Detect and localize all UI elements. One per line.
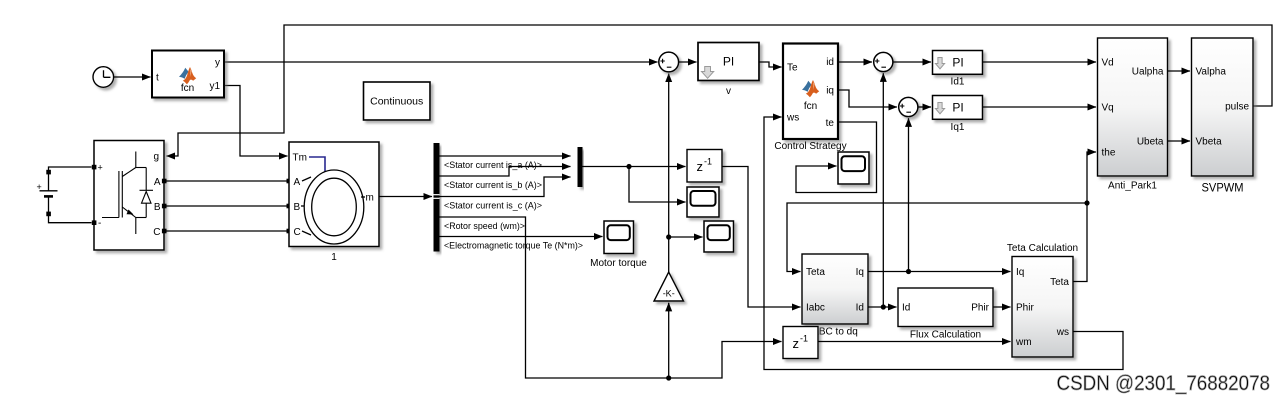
svg-text:<Stator current is_b (A)>: <Stator current is_b (A)>: [444, 180, 542, 191]
svg-text:m: m: [366, 193, 374, 204]
wire: Teta branch to ABC to dq Teta input: [787, 203, 1087, 272]
svg-text:+: +: [37, 182, 42, 192]
svg-text:Id: Id: [856, 303, 864, 314]
unit delay block z1a: [687, 150, 722, 183]
wire: phase C inverter to motor: [162, 229, 291, 234]
wire: Iq feedback up into q-axis sum: [908, 118, 910, 271]
IGBT and diode icon inside inverter: [102, 152, 153, 235]
wire: q sum to PI Iq1: [918, 106, 931, 108]
svg-text:fcn: fcn: [804, 101, 817, 112]
wire: phase A inverter to motor: [162, 179, 291, 184]
svg-text:Teta: Teta: [806, 267, 825, 278]
PI controller Iq1: [933, 96, 983, 120]
Motor torque scope block: [604, 221, 634, 254]
svg-text:v: v: [726, 86, 731, 97]
wire: stator current is_b to mux: [440, 167, 571, 177]
svg-text:wm: wm: [1015, 337, 1032, 348]
Anti_Park1 block: [1098, 38, 1168, 176]
svg-text:A: A: [294, 177, 301, 188]
speed scope3 block: [704, 221, 734, 252]
svg-text:1: 1: [331, 252, 337, 263]
Flux Calculation block: [898, 288, 993, 327]
junction node Id feedback: [881, 304, 886, 309]
svg-text:id: id: [826, 57, 834, 68]
svg-text:Te: Te: [787, 63, 798, 74]
wire: clock to fcn t input: [114, 76, 151, 78]
svg-text:t: t: [156, 73, 159, 84]
MATLAB function block fcn (speed reference): [152, 51, 224, 98]
current scope block: [687, 187, 719, 217]
wire: branch to current scope: [629, 167, 686, 203]
wire: pulse feedback from SVPWM to inverter g: [167, 25, 1273, 156]
svg-text:pulse: pulse: [1225, 102, 1249, 113]
wire: branch to speed scope3: [669, 236, 703, 238]
svg-text:CSDN @2301_76882078: CSDN @2301_76882078: [1057, 372, 1271, 395]
svg-text:A: A: [154, 177, 161, 188]
svg-text:<Rotor speed (wm)>: <Rotor speed (wm)>: [444, 221, 525, 232]
wire: Ualpha to Valpha: [1168, 70, 1191, 72]
svg-text:C: C: [294, 227, 301, 238]
svg-text:SVPWM: SVPWM: [1202, 181, 1244, 195]
ABC to dq transformation block: [802, 254, 868, 324]
speed sum junction: [659, 52, 679, 72]
wire: stator current is_c to mux: [440, 177, 571, 197]
wire: te output loop to te scope4: [796, 122, 877, 193]
svg-text:y1: y1: [209, 81, 220, 92]
wire: stator current is_a to mux: [440, 155, 571, 157]
svg-text:g: g: [153, 152, 159, 163]
svg-text:PI: PI: [723, 55, 734, 69]
svg-text:-1: -1: [800, 334, 808, 344]
svg-text:<Electromagnetic torque Te (N*: <Electromagnetic torque Te (N*m)>: [444, 241, 583, 252]
svg-text:te: te: [826, 118, 835, 129]
DC voltage source (battery): [37, 167, 92, 223]
bus selector bar: [434, 143, 440, 252]
svg-text:the: the: [1102, 148, 1116, 159]
wire: Id output to Flux Calculation: [868, 306, 897, 308]
svg-text:ws: ws: [786, 113, 799, 124]
te scope4 block: [838, 152, 869, 184]
wire: mux output to unit delay z1a with junction: [583, 166, 686, 168]
IGBT inverter block (Universal Bridge): [92, 141, 164, 251]
svg-text:ABC to dq: ABC to dq: [812, 327, 858, 338]
mux bar: [578, 147, 583, 187]
wire: z1b output to Teta Calculation wm: [818, 341, 1011, 343]
PI controller Id1: [933, 51, 983, 75]
junction node on wm line: [666, 375, 671, 380]
svg-text:<Stator current is_c (A)>: <Stator current is_c (A)>: [444, 201, 542, 212]
wire: wm junction up into gain input: [668, 303, 670, 378]
svg-text:Control Strategy: Control Strategy: [774, 141, 846, 152]
svg-text:Anti_Park1: Anti_Park1: [1108, 181, 1157, 192]
wire: motor m output to bus selector: [379, 196, 432, 198]
wire: fcn y output to speed sum junction: [224, 61, 658, 63]
wire: Teta output up to Anti_Park1 the: [1073, 152, 1096, 282]
svg-text:ws: ws: [1056, 327, 1069, 338]
wire: Iq output to Teta Calculation: [868, 271, 1011, 273]
svg-text:-1: -1: [704, 157, 712, 167]
svg-text:Id1: Id1: [951, 77, 965, 88]
svg-text:z: z: [793, 336, 800, 351]
unit delay z1b: [783, 327, 818, 359]
svg-text:Iabc: Iabc: [806, 303, 825, 314]
wire: gain output up to speed sum with scope branch: [668, 74, 670, 273]
svg-text:Tm: Tm: [293, 153, 307, 164]
wire: d sum to PI Id1: [893, 61, 931, 63]
wire: iq output to q-axis sum: [838, 90, 897, 107]
svg-text:PI: PI: [952, 101, 963, 115]
svg-text:Vbeta: Vbeta: [1196, 137, 1223, 148]
PI controller v: [698, 43, 759, 81]
Control Strategy MATLAB function block: [783, 44, 838, 140]
junction node on Teta wire: [1084, 200, 1089, 205]
wire: phase B inverter to motor: [162, 204, 291, 209]
svg-text:y: y: [215, 58, 220, 69]
asynchronous machine block (motor): [289, 142, 379, 247]
wire: rotor speed wm to unit delay z1b: [440, 217, 782, 378]
svg-text:Iq: Iq: [856, 267, 864, 278]
svg-text:-: -: [98, 218, 101, 229]
svg-text:Phir: Phir: [1016, 303, 1034, 314]
wire: PI v to Control Strategy Te: [759, 62, 782, 67]
svg-text:-K-: -K-: [663, 289, 675, 299]
junction node on mux output: [626, 164, 631, 169]
wire: Ubeta to Vbeta: [1168, 140, 1191, 142]
svg-text:Iq1: Iq1: [951, 122, 965, 133]
svg-text:z: z: [697, 159, 704, 174]
svg-text:Motor torque: Motor torque: [590, 258, 647, 269]
svg-text:B: B: [154, 202, 161, 213]
svg-text:Valpha: Valpha: [1196, 67, 1227, 78]
svg-text:iq: iq: [826, 86, 834, 97]
gain block -K-: [654, 272, 684, 301]
svg-text:B: B: [294, 202, 301, 213]
Teta Calculation block: [1012, 257, 1073, 358]
wire: PI Id1 to Anti_Park1 Vd: [983, 61, 1097, 63]
svg-text:Phir: Phir: [971, 303, 989, 314]
wire: id output to d-axis sum: [838, 61, 872, 63]
svg-text:+: +: [98, 163, 103, 173]
junction node on gain output: [666, 234, 671, 239]
svg-text:Id: Id: [902, 303, 910, 314]
svg-text:Ubeta: Ubeta: [1137, 137, 1164, 148]
wire: fcn y1 output to motor Tm input: [224, 86, 288, 157]
svg-text:C: C: [153, 227, 160, 238]
svg-text:Teta: Teta: [1050, 277, 1069, 288]
svg-text:<Stator current is_a (A)>: <Stator current is_a (A)>: [444, 160, 542, 171]
svg-text:Vq: Vq: [1102, 103, 1114, 114]
svg-text:Iq: Iq: [1016, 267, 1024, 278]
q-axis sum junction: [899, 97, 918, 116]
svg-text:Ualpha: Ualpha: [1132, 67, 1164, 78]
wire: z1a output to ABC to dq Iabc: [722, 167, 801, 308]
wire: Phir to Teta Calculation: [993, 306, 1011, 308]
clock block: [93, 67, 114, 88]
Continuous powergui block: [364, 82, 431, 120]
svg-text:fcn: fcn: [181, 83, 194, 94]
svg-text:PI: PI: [952, 56, 963, 70]
d-axis sum junction: [874, 52, 893, 71]
junction node Iq feedback: [906, 269, 911, 274]
SVPWM block: [1192, 38, 1254, 176]
wire: ws output loop back to Control Strategy ws: [764, 117, 1123, 370]
wire: electromagnetic torque to Motor torque scope: [440, 236, 603, 238]
svg-text:Flux Calculation: Flux Calculation: [910, 330, 981, 341]
svg-text:Teta Calculation: Teta Calculation: [1007, 243, 1078, 254]
wire: speed sum to PI v: [679, 61, 697, 63]
svg-text:Continuous: Continuous: [370, 96, 423, 108]
svg-text:Vd: Vd: [1102, 58, 1114, 69]
wire: PI Iq1 to Anti_Park1 Vq: [983, 106, 1097, 108]
wire: Id feedback up into d-axis sum: [882, 73, 884, 307]
